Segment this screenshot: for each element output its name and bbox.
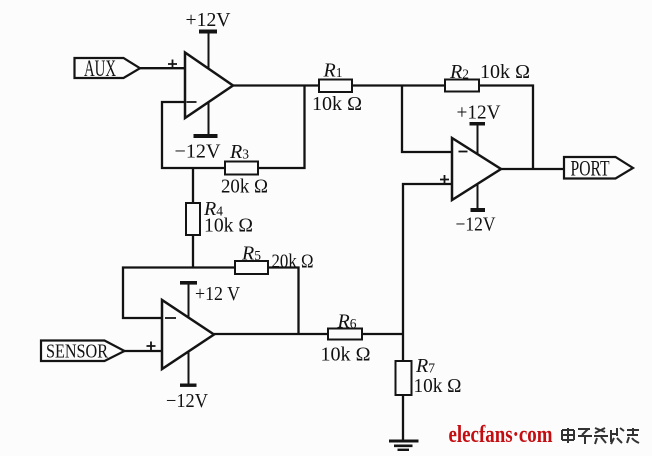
svg-text:20k Ω: 20k Ω xyxy=(221,177,268,198)
op-amp U1 xyxy=(185,53,233,119)
U3 - input marker xyxy=(459,151,468,153)
svg-text:+12V: +12V xyxy=(457,102,502,124)
resistor R3 xyxy=(225,162,258,175)
svg-text:PORT: PORT xyxy=(571,156,610,181)
svg-text:+12V: +12V xyxy=(186,9,232,31)
output tag PORT xyxy=(564,157,633,179)
U1 - input marker xyxy=(187,101,197,103)
svg-text:+12 V: +12 V xyxy=(195,283,240,305)
resistor R5 xyxy=(235,261,268,274)
U2 - input marker xyxy=(165,317,176,319)
U2 -12V supply bar xyxy=(180,352,197,387)
svg-text:10k Ω: 10k Ω xyxy=(204,216,253,237)
op-amp U3 xyxy=(452,138,501,200)
input tag AUX xyxy=(75,58,141,78)
svg-text:20k Ω: 20k Ω xyxy=(272,252,314,273)
svg-text:10k Ω: 10k Ω xyxy=(480,62,530,83)
U3 +12V supply bar xyxy=(470,122,486,154)
U3 + input marker xyxy=(440,175,449,184)
U1 + input marker xyxy=(168,60,177,69)
U2 + input marker xyxy=(147,342,156,351)
U1 -12V supply bar xyxy=(194,102,218,139)
wire U3 output to PORT xyxy=(501,168,564,170)
svg-text:10k Ω: 10k Ω xyxy=(414,376,462,397)
svg-text:−12V: −12V xyxy=(166,390,209,412)
ground xyxy=(389,441,419,450)
svg-text:−12V: −12V xyxy=(456,214,496,236)
watermark chinese characters xyxy=(562,428,639,444)
wire U1 - input feedback loop via R3 to node A xyxy=(162,86,305,169)
wire R4 branch xyxy=(192,168,194,268)
op-amp U2 xyxy=(162,300,214,369)
U2 +12V supply bar xyxy=(180,281,197,318)
input tag SENSOR xyxy=(41,341,125,362)
svg-text:elecfans·com: elecfans·com xyxy=(449,422,553,448)
U1 +12V supply bar xyxy=(199,30,217,69)
resistor R6 xyxy=(328,329,362,340)
wire SENSOR to U2 + input xyxy=(124,350,162,352)
wire main: U1 output through R1, R2 to corner down to U3 output xyxy=(233,86,533,170)
svg-text:10k Ω: 10k Ω xyxy=(321,345,371,366)
svg-text:AUX: AUX xyxy=(84,56,116,81)
resistor R7 xyxy=(396,361,412,395)
wire U3 + input branch down through R7 to ground xyxy=(403,184,452,440)
resistor R2 xyxy=(445,80,479,92)
svg-text:−12V: −12V xyxy=(175,141,222,163)
wire AUX to U1 + input xyxy=(139,67,185,69)
svg-text:SENSOR: SENSOR xyxy=(46,341,108,363)
resistor R4 xyxy=(186,203,200,235)
resistor R1 xyxy=(319,80,352,93)
wire node A branch down to U3 - input xyxy=(402,86,452,153)
wire U2 output through R6 to node B xyxy=(214,333,403,335)
wire U2 - input feedback loop via R5 xyxy=(123,268,299,335)
svg-text:10k Ω: 10k Ω xyxy=(312,94,362,115)
U3 -12V supply bar xyxy=(471,184,486,212)
